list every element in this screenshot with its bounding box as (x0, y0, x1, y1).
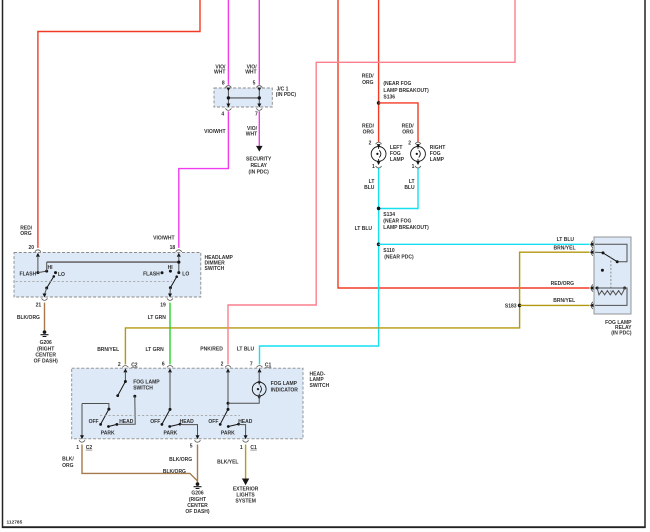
fog lamp indicator lead from pin 7 C1 (258, 372, 260, 383)
J/C 1 internal bus left (227, 91, 229, 104)
wire BLK/YEL headlamp switch pin 1 C1 to exterior lights system (245, 445, 247, 479)
main switch pole2 PARK-HEAD strap (170, 424, 180, 426)
main switch pole2 OFF contact (161, 423, 164, 426)
splice S134 (377, 207, 381, 211)
svg-text:BLK/: BLK/ (62, 456, 74, 462)
wire VIO/WHT into J/C 1 pin 5 (258, 0, 260, 85)
relay switch pivot node (602, 251, 605, 254)
svg-text:BRN/YEL: BRN/YEL (554, 245, 576, 251)
fog lamp indicator lamp symbol (252, 382, 266, 396)
svg-text:LT GRN: LT GRN (146, 347, 165, 353)
main switch pole2 PARK contact (168, 425, 171, 428)
svg-text:(NEAR PDC): (NEAR PDC) (384, 255, 414, 261)
main switch pole3 PARK contact (227, 425, 230, 428)
svg-text:SECURITY: SECURITY (246, 156, 272, 162)
svg-text:2: 2 (369, 141, 372, 147)
svg-text:HEAD: HEAD (238, 419, 253, 425)
svg-text:8: 8 (222, 81, 225, 87)
main switch pole3 HEAD contact (237, 423, 240, 426)
J/C 1 internal bus right (258, 91, 260, 104)
splice S183 (518, 304, 522, 308)
relay coil node right (623, 287, 626, 290)
svg-text:4: 4 (221, 111, 224, 117)
wire LT BLU splice S110 to fog lamp relay (379, 243, 590, 245)
relay coil top link (597, 287, 624, 289)
svg-text:BLK/ORG: BLK/ORG (17, 315, 40, 321)
main switch pole3 arm to OFF (220, 409, 228, 424)
svg-text:1: 1 (412, 164, 415, 170)
headlamp switch terminal pin 7 C1 (257, 366, 263, 373)
svg-text:PARK: PARK (164, 430, 178, 436)
svg-text:SYSTEM: SYSTEM (235, 499, 256, 505)
dimmer terminal pin 19 (167, 294, 173, 301)
wire BLK/ORG headlamp switch pin 1 C2 to ground splice (82, 445, 198, 482)
wire VIO/WHT J/C 1 pin 7 to security relay (258, 111, 260, 147)
main switch pole2 wiper node (169, 408, 172, 411)
J/C 1 junction node right (258, 96, 261, 99)
relay coil lead from RED/ORG terminal (595, 287, 597, 289)
svg-text:ORG: ORG (362, 80, 374, 86)
headlamp switch terminal pin 1 C2 (79, 435, 85, 442)
headlamp dimmer switch box (14, 253, 201, 298)
svg-text:C1: C1 (250, 445, 257, 451)
svg-text:FOG LAMP: FOG LAMP (133, 379, 160, 385)
svg-text:OFF: OFF (150, 419, 160, 425)
svg-text:S110: S110 (383, 248, 395, 254)
left fog lamp bulb (371, 147, 386, 162)
J/C 1 terminal pin 7 (256, 104, 262, 111)
main switch pole3 lead from pin 2 (227, 372, 229, 410)
ground G206 lower right center of dash (194, 482, 202, 488)
svg-text:(RIGHT: (RIGHT (37, 346, 54, 352)
svg-text:HEAD: HEAD (180, 419, 195, 425)
svg-text:BLU: BLU (364, 185, 375, 191)
arrow to exterior lights system (242, 479, 249, 486)
main switch pole3 PARK-HEAD strap (228, 424, 238, 426)
svg-text:ORG: ORG (62, 463, 74, 469)
dimmer wiper arm end node left (53, 275, 56, 278)
svg-text:1: 1 (76, 445, 79, 451)
left fog lamp terminal pin 2 (376, 142, 382, 148)
svg-text:PARK: PARK (101, 430, 115, 436)
svg-text:18: 18 (170, 245, 176, 251)
svg-text:112785: 112785 (7, 520, 23, 526)
left fog lamp terminal pin 1 (376, 161, 382, 168)
J/C 1 terminal pin 8 (225, 86, 231, 92)
wire BRN/YEL fog lamp relay to headlamp switch pin 2 C2 (125, 252, 589, 364)
svg-text:FLASH: FLASH (20, 272, 37, 278)
svg-text:19: 19 (160, 302, 166, 308)
svg-text:RELAY: RELAY (250, 163, 267, 169)
right fog lamp bulb (411, 147, 426, 162)
svg-text:6: 6 (162, 362, 165, 368)
fog lamp switch contact lead to HEAD/PARK strap (119, 396, 136, 424)
wire VIO/WHT into J/C 1 pin 8 (227, 0, 229, 85)
svg-text:LO: LO (58, 272, 65, 278)
wire LT BLU right fog lamp pin 1 to splice S134 (379, 167, 418, 208)
svg-text:INDICATOR: INDICATOR (271, 388, 299, 394)
main switch pole2 lead from pin 6 (169, 372, 171, 410)
dimmer wiper arm right (170, 277, 176, 288)
svg-text:(IN PDC): (IN PDC) (276, 92, 297, 98)
wire LT BLU left fog lamp pin 1 through S134 and S110 to headlamp switch pin 7 C1 (260, 167, 379, 364)
fog lamp indicator lead to pole3 (228, 396, 259, 403)
svg-text:OFF: OFF (208, 419, 218, 425)
main switch pole1 HEAD contact (116, 423, 119, 426)
svg-text:S136: S136 (383, 94, 395, 100)
wire RED/ORG to splice S136 and left fog lamp pin 2 (378, 0, 380, 142)
svg-text:C1: C1 (265, 362, 272, 368)
svg-text:WHT: WHT (245, 70, 256, 76)
svg-text:G206: G206 (40, 340, 52, 346)
main switch pole1 wiper node (107, 408, 110, 411)
svg-text:20: 20 (28, 245, 34, 251)
splice S136 (377, 101, 381, 105)
svg-text:S183: S183 (505, 304, 517, 310)
dimmer LO contact right (177, 271, 180, 274)
relay terminal BRN/YEL (590, 249, 594, 256)
fog lamp switch arm (118, 382, 126, 396)
svg-text:5: 5 (190, 444, 193, 450)
main switch pole3 HEAD lead to pin 1 C1 (239, 424, 246, 435)
svg-text:G206: G206 (191, 491, 203, 497)
headlamp switch terminal pin 1 C1 (243, 435, 249, 442)
dimmer terminal pin 20 (35, 250, 41, 257)
headlamp switch terminal pin 5 (195, 435, 201, 442)
wire BLK/ORG headlamp switch pin 5 to ground G206 (197, 445, 199, 483)
dimmer wiper lead to pin 21 (45, 288, 47, 294)
svg-text:LT GRN: LT GRN (148, 315, 167, 321)
svg-text:(NEAR FOG: (NEAR FOG (383, 219, 411, 225)
wire RED/ORG branch S136 to right fog lamp pin 2 (379, 103, 418, 142)
main switch pole1 ground lead (81, 404, 83, 436)
svg-text:BLU: BLU (404, 185, 415, 191)
dimmer pin 18 lead (178, 256, 180, 273)
relay switch contact node (616, 260, 619, 263)
svg-text:LAMP BREAKOUT): LAMP BREAKOUT) (383, 225, 429, 231)
relay coil winding zigzag (597, 288, 624, 295)
svg-text:FOG LAMP: FOG LAMP (271, 381, 298, 387)
svg-text:BRN/YEL: BRN/YEL (553, 298, 575, 304)
J/C 1 terminal pin 4 (225, 104, 231, 111)
dimmer wiper node left (45, 287, 48, 290)
dimmer wiper lead to pin 19 (169, 288, 171, 294)
right fog lamp terminal pin 1 (415, 161, 421, 168)
svg-text:OF DASH): OF DASH) (185, 509, 210, 515)
dimmer mechanical linkage dashed line (16, 281, 173, 283)
svg-text:21: 21 (36, 302, 42, 308)
svg-text:CENTER: CENTER (35, 353, 56, 359)
main switch pole3 OFF contact (219, 423, 222, 426)
wire RED/ORG to fog lamp relay terminal (338, 0, 590, 288)
relay coil to BRN/YEL terminal path (595, 288, 627, 305)
fog lamp switch pivot node (124, 380, 127, 383)
svg-text:SWITCH: SWITCH (310, 383, 330, 389)
svg-text:HI: HI (48, 265, 54, 271)
junction connector J/C 1 box (IN PDC) (214, 88, 272, 107)
svg-text:HI: HI (168, 265, 174, 271)
dimmer HI bus riser (46, 262, 48, 271)
svg-text:C2: C2 (86, 445, 93, 451)
wire BRN/YEL splice S183 to fog lamp relay coil (520, 304, 590, 306)
svg-text:WHT: WHT (246, 132, 257, 138)
headlamp switch terminal pin 2 C2 (122, 366, 128, 373)
svg-text:2: 2 (221, 362, 224, 368)
svg-text:VIO/WHT: VIO/WHT (204, 129, 225, 135)
dimmer pin 20 lead to FLASH contact (37, 256, 39, 273)
dimmer terminal pin 18 (176, 250, 182, 257)
page border right (644, 0, 646, 528)
dimmer wiper arm left (47, 276, 54, 288)
relay terminal BRN/YEL coil (590, 302, 594, 309)
fog lamp relay box (IN PDC) (594, 237, 631, 314)
svg-text:LAMP: LAMP (390, 157, 405, 163)
svg-text:LT BLU: LT BLU (557, 237, 575, 243)
main switch pole1 PARK-HEAD strap (109, 424, 117, 426)
fog lamp switch contact node (133, 395, 136, 398)
svg-text:(RIGHT: (RIGHT (189, 497, 206, 503)
main switch pole2 HEAD contact (179, 423, 182, 426)
headlamp switch box (72, 368, 303, 439)
arrow to security relay (256, 146, 263, 152)
main switch pole1 lead from pin 1 C2 (82, 404, 109, 410)
dimmer FLASH contact left (36, 271, 39, 274)
svg-text:S134: S134 (383, 212, 395, 218)
svg-text:BLK/YEL: BLK/YEL (217, 459, 238, 465)
J/C 1 internal bus tie (228, 97, 259, 99)
svg-text:2: 2 (118, 362, 121, 368)
svg-text:1: 1 (240, 445, 243, 451)
svg-text:7: 7 (255, 111, 258, 117)
wire VIO/WHT J/C 1 pin 4 to headlamp dimmer switch pin 18 (179, 111, 229, 248)
relay switch arm (603, 253, 617, 262)
svg-text:LO: LO (182, 272, 189, 278)
headlamp switch mechanical linkage dashed line (100, 414, 240, 416)
splice S110 (377, 243, 381, 247)
relay spare contact node (601, 269, 604, 272)
svg-text:ORG: ORG (20, 231, 32, 237)
wire BLK/ORG headlamp dimmer pin 21 to ground G206 (44, 303, 46, 331)
svg-text:WHT: WHT (214, 70, 225, 76)
wire LT GRN headlamp dimmer pin 19 to headlamp switch pin 6 (169, 303, 171, 365)
J/C 1 terminal pin 5 (256, 86, 262, 92)
svg-text:HEAD: HEAD (119, 419, 134, 425)
svg-text:LAMP BREAKOUT): LAMP BREAKOUT) (383, 88, 429, 94)
wire PNK/RED to headlamp switch pin 2 (228, 0, 515, 364)
dimmer terminal pin 21 (42, 294, 48, 301)
relay coil node left (596, 287, 599, 290)
svg-text:PNK/RED: PNK/RED (200, 346, 223, 352)
dimmer HI contact left (45, 270, 48, 273)
svg-text:LAMP: LAMP (430, 157, 445, 163)
svg-text:CENTER: CENTER (187, 503, 208, 509)
svg-text:7: 7 (250, 362, 253, 368)
main switch pole2 arm to OFF (162, 409, 170, 424)
main switch pole1 PARK contact (107, 425, 110, 428)
dimmer bus junction node (177, 261, 180, 264)
dimmer wiper node right (169, 286, 172, 289)
svg-text:LT BLU: LT BLU (237, 346, 255, 352)
svg-text:ORG: ORG (402, 130, 414, 136)
ground G206 right center of dash (41, 330, 49, 336)
svg-text:BRN/YEL: BRN/YEL (97, 347, 119, 353)
svg-text:(IN PDC): (IN PDC) (611, 331, 632, 337)
dimmer FLASH to HI link left (38, 271, 47, 273)
relay actuation dashed link (610, 257, 612, 295)
svg-text:(NEAR FOG: (NEAR FOG (383, 81, 411, 87)
main switch pole1 OFF contact (99, 423, 102, 426)
svg-text:(IN PDC): (IN PDC) (249, 169, 270, 175)
svg-text:SWITCH: SWITCH (205, 266, 225, 272)
dimmer HI bus to pin 18 lead (47, 261, 179, 263)
svg-text:BLK/ORG: BLK/ORG (169, 457, 192, 463)
wire RED/ORG feed to headlamp dimmer switch pin 20 (38, 0, 200, 248)
dimmer FLASH contact right (161, 271, 164, 274)
dimmer LO contact left (54, 271, 57, 274)
svg-text:ORG: ORG (363, 130, 375, 136)
svg-text:C2: C2 (131, 362, 138, 368)
relay switch pivot lead (595, 251, 603, 253)
svg-text:1: 1 (372, 164, 375, 170)
main switch pole3 wiper node (227, 408, 230, 411)
relay switch contact path from LT BLU terminal (595, 244, 627, 261)
svg-text:2: 2 (408, 141, 411, 147)
headlamp switch terminal pin 2 (225, 366, 231, 373)
relay terminal RED/ORG (590, 284, 594, 291)
svg-text:BLK/ORG: BLK/ORG (163, 469, 186, 475)
relay terminal LT BLU (590, 241, 594, 248)
page border left (2, 0, 4, 528)
svg-text:SWITCH: SWITCH (133, 386, 153, 392)
right fog lamp terminal pin 2 (415, 142, 421, 148)
svg-text:PARK: PARK (221, 430, 235, 436)
main switch pole1 arm to OFF (101, 409, 109, 424)
headlamp switch terminal pin 6 (167, 366, 173, 373)
svg-text:RED/ORG: RED/ORG (551, 281, 574, 287)
svg-text:LT BLU: LT BLU (355, 226, 373, 232)
svg-text:5: 5 (253, 81, 256, 87)
fog lamp switch lead from pin 2 C2 (124, 372, 126, 382)
svg-text:OFF: OFF (89, 419, 99, 425)
indicator junction node (227, 402, 230, 405)
svg-text:OF DASH): OF DASH) (34, 359, 59, 365)
svg-text:FLASH: FLASH (143, 272, 160, 278)
page border bottom (2, 526, 646, 528)
dimmer wiper arm end node right (175, 275, 178, 278)
dimmer HI contact right (169, 270, 172, 273)
svg-text:VIO/WHT: VIO/WHT (153, 235, 174, 241)
fog lamp switch arm end node (116, 394, 119, 397)
svg-text:RED/: RED/ (362, 73, 375, 79)
J/C 1 junction node left (227, 96, 230, 99)
main switch pole2 HEAD lead to pin 5 (180, 424, 198, 435)
